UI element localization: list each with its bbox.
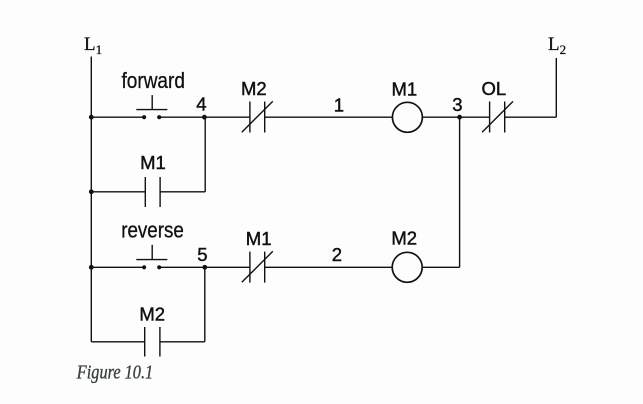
svg-text:Figure 10.1: Figure 10.1 <box>76 363 153 384</box>
svg-text:1: 1 <box>334 95 344 116</box>
svg-text:L2: L2 <box>548 34 566 57</box>
svg-text:2: 2 <box>332 244 342 265</box>
svg-text:M2: M2 <box>139 304 165 325</box>
svg-text:M2: M2 <box>391 227 417 248</box>
svg-text:OL: OL <box>482 78 507 99</box>
svg-text:3: 3 <box>452 94 462 115</box>
svg-text:5: 5 <box>197 244 207 265</box>
svg-text:4: 4 <box>196 93 206 114</box>
svg-text:M1: M1 <box>246 228 272 249</box>
svg-text:M2: M2 <box>241 78 267 99</box>
svg-text:L1: L1 <box>84 34 102 57</box>
svg-text:reverse: reverse <box>121 217 184 242</box>
svg-text:M1: M1 <box>140 152 166 173</box>
svg-text:M1: M1 <box>392 79 418 100</box>
svg-text:forward: forward <box>122 68 185 93</box>
